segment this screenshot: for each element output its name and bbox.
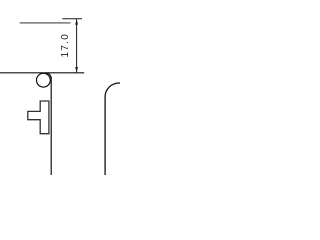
- circle roller: [37, 73, 51, 87]
- main horizontal edge: [0, 72, 84, 74]
- left vertical edge with top fillet: [46, 73, 51, 175]
- gray edge line: [20, 22, 71, 24]
- dimension line 17.0: [75, 19, 78, 73]
- dimension extension line top: [62, 18, 82, 20]
- svg-text:17.0: 17.0: [60, 33, 71, 58]
- right rounded corner profile: [105, 83, 120, 175]
- clip profile polygon: [28, 101, 49, 134]
